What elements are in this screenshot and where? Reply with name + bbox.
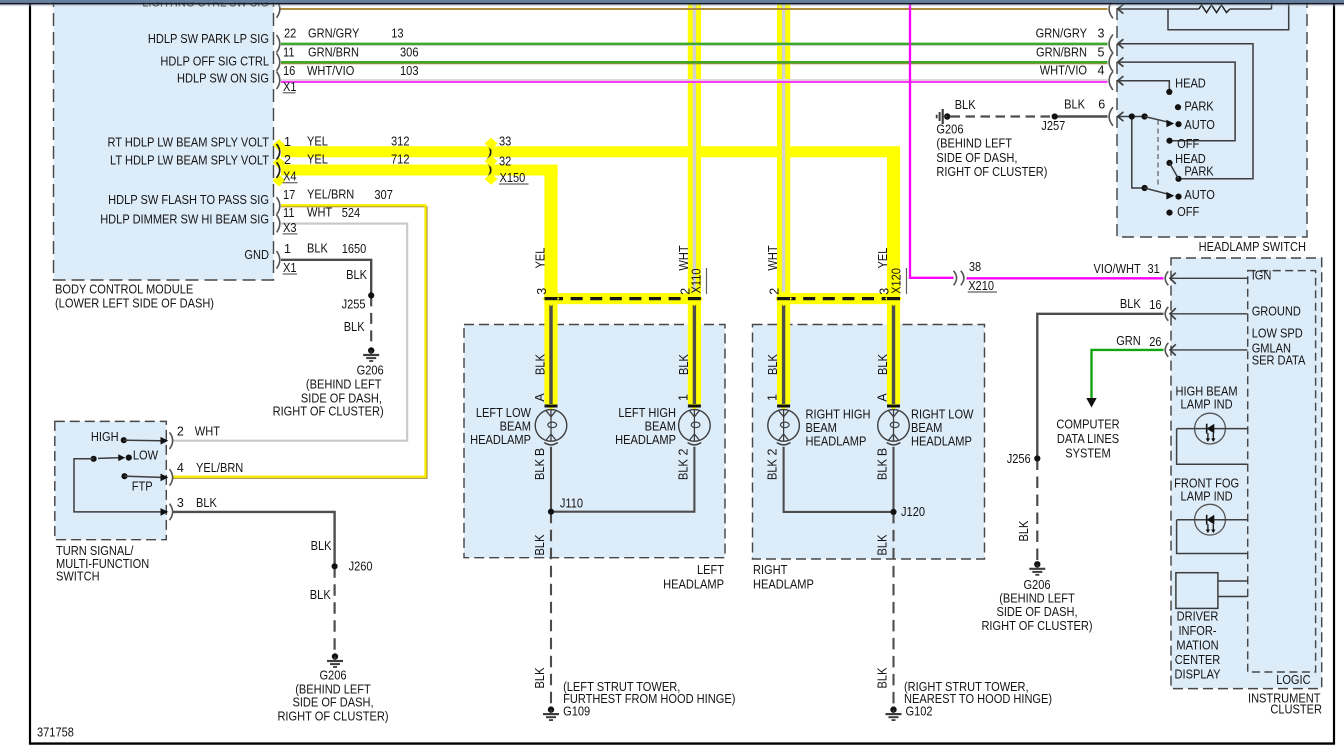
wire BLK 6 J257 to headlamp switch [1055,115,1108,117]
headlamp switch wire pin6 to switch poles [1118,117,1145,189]
svg-text:LOW: LOW [133,449,158,463]
page border left [29,3,31,745]
svg-text:13: 13 [391,26,403,40]
svg-text:OFF: OFF [1177,137,1199,151]
svg-text:26: 26 [1149,335,1161,349]
headlamp switch pin arcs [1109,0,1113,126]
svg-text:(BEHIND LEFT: (BEHIND LEFT [936,137,1012,151]
wire VIO/WHT vertical from top of page [909,4,911,279]
headlamp switch position labels [1175,77,1215,219]
svg-text:17: 17 [283,188,295,202]
headlamp switch side wire labels [1036,27,1106,112]
svg-text:YEL: YEL [307,153,328,167]
wire VIO/WHT elbow to connector X210 [909,277,954,279]
svg-text:524: 524 [342,206,361,220]
ground G206 below J256 [1029,561,1045,575]
dashed BLK J120 to ground G102 [892,512,894,706]
svg-text:BEAM: BEAM [645,420,676,434]
svg-text:DISPLAY: DISPLAY [1175,668,1221,682]
svg-text:4: 4 [177,461,184,475]
dashed BLK J255 to ground G206 [370,295,372,347]
J260 and G206 labels [277,539,388,724]
computer data lines labels [1056,418,1119,461]
ground G109 labels [563,680,735,718]
BCM signal labels [100,0,269,262]
svg-text:2: 2 [768,288,782,295]
svg-text:GND: GND [244,248,269,262]
svg-text:2: 2 [766,448,780,455]
svg-text:HIGH: HIGH [91,430,119,444]
turn signal labels [56,425,243,584]
svg-text:BLK: BLK [533,458,547,479]
highlighted dashed BLK jumper row left headlamp [546,293,700,304]
svg-text:RIGHT HIGH: RIGHT HIGH [806,408,871,422]
svg-text:TURN SIGNAL/: TURN SIGNAL/ [56,544,134,558]
front fog indicator loop wire [1177,520,1248,554]
svg-text:A: A [533,393,547,402]
instrument cluster internal labels [1174,269,1322,717]
svg-text:YEL: YEL [876,248,890,269]
X150 labels [499,135,529,185]
bulb pigtail left low to J110 [550,447,552,512]
headlamp switch name [1199,240,1306,254]
wire BLK 16 instrument cluster to J256 [1037,314,1163,459]
svg-text:VIO/WHT: VIO/WHT [1094,262,1142,276]
svg-text:B: B [876,448,890,456]
svg-text:BLK: BLK [677,353,691,374]
svg-text:AUTO: AUTO [1184,118,1215,132]
driver information center display symbol [1176,573,1248,609]
svg-text:BLK: BLK [346,268,367,282]
svg-text:GRN/GRY: GRN/GRY [308,26,360,40]
svg-text:SIDE OF DASH,: SIDE OF DASH, [996,605,1077,619]
LED high beam lamp indicator [1177,413,1248,444]
svg-text:RIGHT OF CLUSTER): RIGHT OF CLUSTER) [273,405,384,419]
svg-text:RIGHT OF CLUSTER): RIGHT OF CLUSTER) [981,619,1092,633]
svg-text:G206: G206 [936,123,963,137]
svg-text:HDLP SW FLASH TO PASS SIG: HDLP SW FLASH TO PASS SIG [108,193,269,207]
svg-text:J256: J256 [1007,452,1031,466]
bulb pigtail left high down and to J110 [551,447,694,512]
svg-text:LOW SPD: LOW SPD [1252,327,1303,341]
svg-text:HDLP SW PARK LP SIG: HDLP SW PARK LP SIG [148,32,269,46]
svg-text:BLK: BLK [876,667,890,688]
svg-text:HEADLAMP SWITCH: HEADLAMP SWITCH [1199,240,1306,254]
svg-text:GRN/BRN: GRN/BRN [308,46,359,60]
svg-text:G109: G109 [563,704,590,718]
svg-text:BLK: BLK [311,539,332,553]
bulb right high beam headlamp [768,410,800,445]
turn signal internal switch [74,437,168,516]
dashed BLK J110 to ground G109 [550,512,552,706]
wire WHT 524 BCM to turn signal switch [173,224,407,441]
svg-text:BEAM: BEAM [500,420,531,434]
svg-text:FRONT FOG: FRONT FOG [1174,477,1239,491]
splice J256 [1034,455,1040,461]
svg-text:(BEHIND LEFT: (BEHIND LEFT [295,683,371,697]
svg-text:G206: G206 [1023,578,1050,592]
svg-text:16: 16 [1149,298,1161,312]
highlighted dashed BLK jumper row right headlamp [778,293,899,304]
wire YEL 312 row (RT HDLP LW BEAM SPLY VOLT) horizontal [281,146,900,157]
wire YEL/BRN 307 BCM to turn signal switch [173,205,427,478]
BCM module name [55,283,214,311]
svg-text:BLK: BLK [1120,297,1141,311]
svg-text:2: 2 [177,425,184,439]
svg-text:SWITCH: SWITCH [56,570,100,584]
svg-text:FTP: FTP [132,479,153,493]
svg-text:HEADLAMP: HEADLAMP [806,435,867,449]
svg-text:HEAD: HEAD [1175,77,1206,91]
svg-text:WHT: WHT [677,245,691,271]
svg-text:CENTER: CENTER [1175,653,1221,667]
svg-text:BLK: BLK [876,534,890,555]
svg-text:BODY CONTROL MODULE: BODY CONTROL MODULE [55,283,193,297]
bulb left low beam headlamp [535,410,567,445]
svg-text:A: A [876,393,890,402]
svg-text:DATA LINES: DATA LINES [1057,432,1119,446]
svg-text:(BEHIND LEFT: (BEHIND LEFT [999,592,1075,606]
BCM pin numbers and wire ids [283,26,419,275]
wire WHT/VIO 103 BCM to headlamp switch [281,80,1108,82]
page border bottom [29,742,1335,744]
headlamp switch wire pin3 to PARK2 [1118,44,1253,179]
svg-text:103: 103 [400,64,419,78]
svg-text:BLK: BLK [344,320,365,334]
svg-text:X120: X120 [890,268,904,294]
svg-text:RIGHT: RIGHT [753,563,788,577]
svg-text:BLK: BLK [955,98,976,112]
splice and headlamp box labels [560,497,925,592]
svg-text:AUTO: AUTO [1184,188,1215,202]
svg-text:GRN/BRN: GRN/BRN [1036,45,1087,59]
bulb pigtail right high down and to J120 [784,447,894,512]
J256 and G206 labels [981,452,1092,633]
svg-text:J120: J120 [901,505,925,519]
page border right [1333,3,1335,745]
svg-text:BLK: BLK [533,534,547,555]
rotated labels below bulbs [533,448,890,689]
svg-text:3: 3 [535,288,549,295]
svg-text:1650: 1650 [342,242,367,256]
svg-text:WHT: WHT [766,245,780,271]
svg-text:CLUSTER: CLUSTER [1270,703,1322,717]
wire BLK G206 to J257 dashed [951,115,1055,117]
svg-text:32: 32 [499,154,511,168]
svg-text:2: 2 [284,153,291,167]
svg-text:G102: G102 [906,705,933,719]
svg-text:WHT/VIO: WHT/VIO [307,64,355,78]
headlamp switch mechanical link dashed [1157,120,1159,188]
svg-text:WHT: WHT [307,205,333,219]
ground G102 labels [904,680,1052,719]
svg-text:BLK: BLK [1064,98,1085,112]
wire LIGHTING CTRL SW SIG (brown) BCM to headlamp switch [280,8,1108,10]
svg-text:INFOR-: INFOR- [1178,624,1216,638]
headlamp switch internal: resistor circuit [1118,4,1289,30]
svg-text:WHT/VIO: WHT/VIO [1040,63,1088,77]
svg-text:LEFT HIGH: LEFT HIGH [618,406,676,420]
wire BLK turn signal pin 3 to J260 [173,512,335,566]
high beam indicator loop wire [1177,429,1248,465]
svg-text:BLK: BLK [876,458,890,479]
highlighted BLK wire drop into bulb [885,291,902,410]
svg-text:BLK: BLK [876,353,890,374]
svg-text:4: 4 [1098,63,1105,77]
highlighted WHT wire from top to left high beam headlamp [688,4,701,303]
svg-text:X210: X210 [968,279,994,293]
highlighted BLK wire drop into bulb [775,291,792,410]
splice J260 [332,563,338,569]
svg-text:LT HDLP LW BEAM SPLY VOLT: LT HDLP LW BEAM SPLY VOLT [110,154,269,168]
splice J257 [1052,113,1058,119]
svg-text:YEL: YEL [307,135,328,149]
splice J255 [368,292,374,298]
svg-text:G206: G206 [319,669,346,683]
svg-text:22: 22 [284,26,296,40]
turn signal / multi-function switch box [55,421,167,539]
headlamp switch box [1117,0,1307,237]
left headlamp box [464,325,725,558]
svg-text:312: 312 [391,135,410,149]
ground G206 left of J257 [937,109,951,124]
svg-text:6: 6 [1098,98,1105,112]
svg-text:GRN: GRN [1116,334,1141,348]
svg-text:BLK: BLK [310,588,331,602]
svg-text:LEFT LOW: LEFT LOW [476,406,531,420]
svg-text:J255: J255 [342,298,366,312]
svg-text:LAMP IND: LAMP IND [1181,490,1233,504]
svg-text:YEL: YEL [534,248,548,269]
svg-text:YEL/BRN: YEL/BRN [196,461,243,475]
svg-text:BLK: BLK [1017,520,1031,541]
bulb right low beam headlamp [878,410,910,445]
svg-text:HEADLAMP: HEADLAMP [663,578,724,592]
bulb pigtail right low to J120 [892,447,894,512]
body control module box [54,0,274,280]
wire GRN/BRN 306 BCM to headlamp switch [281,62,1108,64]
svg-text:306: 306 [400,46,419,60]
svg-text:HEADLAMP: HEADLAMP [911,435,972,449]
svg-text:3: 3 [177,496,184,510]
svg-text:SER DATA: SER DATA [1252,354,1306,368]
svg-text:BEAM: BEAM [911,421,942,435]
svg-text:HDLP SW ON SIG: HDLP SW ON SIG [177,72,269,86]
svg-text:GROUND: GROUND [1252,304,1301,318]
svg-text:SIDE OF DASH,: SIDE OF DASH, [936,151,1017,165]
connector X150 break symbols [485,138,498,185]
svg-text:33: 33 [499,135,511,149]
headlamp switch wire pin4 to HEAD1 [1118,81,1170,89]
svg-text:COMPUTER: COMPUTER [1056,418,1119,432]
svg-text:BLK: BLK [676,458,690,479]
svg-text:BLK: BLK [534,353,548,374]
svg-text:X1: X1 [283,80,297,94]
svg-text:J260: J260 [349,560,373,574]
svg-text:X3: X3 [283,221,297,235]
svg-text:LOGIC: LOGIC [1276,673,1310,687]
highlighted WHT wire from top to right high beam headlamp [777,4,790,303]
svg-text:X1: X1 [283,261,297,275]
svg-text:X4: X4 [283,170,297,184]
bulb name labels [470,406,974,449]
wire GRN/GRY 13 BCM to headlamp switch [281,44,1108,46]
instrument cluster outer box [1171,258,1322,689]
svg-text:BLK: BLK [196,496,217,510]
right headlamp box [753,325,985,560]
headlamp switch pin chevron arrows [1118,4,1124,121]
dashed BLK J256 to ground G206 [1036,459,1038,561]
G206 / J257 labels [936,98,1065,179]
svg-text:BLK: BLK [766,458,780,479]
svg-text:BEAM: BEAM [806,421,837,435]
svg-text:PARK: PARK [1184,164,1214,178]
svg-text:G206: G206 [357,364,384,378]
svg-text:HIGH BEAM: HIGH BEAM [1176,384,1238,398]
svg-text:PARK: PARK [1184,100,1214,114]
svg-text:712: 712 [391,153,410,167]
highlighted BLK wire drop into bulb [686,291,703,410]
J255 and G206 labels [273,268,384,419]
rotated labels on headlamp feed wires [534,245,907,295]
svg-text:2: 2 [676,448,690,455]
svg-text:X150: X150 [500,171,526,185]
LED front fog lamp indicator [1177,504,1248,535]
wire YEL 712 row (LT HDLP LW BEAM SPLY VOLT) horizontal [281,165,558,176]
svg-text:1: 1 [284,135,291,149]
top toolbar strip [0,0,1344,6]
svg-text:J110: J110 [560,497,583,511]
wire YEL 312 vertical drop to right low beam headlamp [887,152,900,303]
svg-text:IGN: IGN [1252,269,1272,283]
dashed BLK J260 to ground G206 [334,566,336,653]
svg-text:371758: 371758 [37,726,74,740]
svg-text:BLK: BLK [307,241,328,255]
svg-text:YEL/BRN: YEL/BRN [307,187,354,201]
diagram number [37,726,74,740]
svg-text:J257: J257 [1041,119,1065,133]
X210 labels [968,260,997,293]
highlighted BLK wire drop into bulb [543,291,560,410]
svg-text:RIGHT OF CLUSTER): RIGHT OF CLUSTER) [277,710,388,724]
svg-text:1: 1 [676,394,690,401]
svg-text:HDLP OFF SIG CTRL: HDLP OFF SIG CTRL [160,55,269,69]
svg-text:307: 307 [374,188,393,202]
BCM connector pin arcs [277,0,280,268]
instrument cluster pin arrows [1170,273,1248,356]
svg-text:MATION: MATION [1176,639,1218,653]
svg-text:WHT: WHT [195,425,221,439]
svg-text:BLK: BLK [533,667,547,688]
ground G102 [886,706,902,720]
svg-text:11: 11 [283,206,295,220]
svg-text:LEFT: LEFT [697,563,724,577]
svg-text:SIDE OF DASH,: SIDE OF DASH, [292,696,373,710]
svg-text:SIDE OF DASH,: SIDE OF DASH, [301,392,382,406]
svg-text:(LOWER LEFT SIDE OF DASH): (LOWER LEFT SIDE OF DASH) [55,297,214,311]
svg-text:1: 1 [284,242,291,256]
rotated BLK labels above bulbs [533,353,890,401]
svg-text:OFF: OFF [1177,205,1199,219]
ground G109 [543,706,559,720]
svg-text:SYSTEM: SYSTEM [1065,447,1111,461]
cluster wire labels [1094,262,1162,349]
svg-text:(BEHIND LEFT: (BEHIND LEFT [306,378,382,392]
instrument cluster logic inner box [1248,271,1316,672]
bulb left high beam headlamp [679,410,711,445]
svg-text:HEADLAMP: HEADLAMP [615,433,676,447]
svg-text:38: 38 [969,260,981,274]
svg-text:BLK: BLK [766,353,780,374]
connector X210 break symbols [954,271,964,285]
ground G206 below J255 [363,347,379,361]
svg-text:LAMP IND: LAMP IND [1181,397,1233,411]
svg-text:RIGHT LOW: RIGHT LOW [911,408,974,422]
svg-text:16: 16 [283,64,295,78]
turn signal pin arcs [170,432,173,520]
wire YEL 712 vertical drop to left low beam headlamp [544,170,557,303]
splice J120 [890,509,896,515]
svg-text:B: B [533,448,547,456]
svg-text:RIGHT OF CLUSTER): RIGHT OF CLUSTER) [936,165,1047,179]
svg-text:11: 11 [283,46,295,60]
wire VIO/WHT 31 from X210 to instrument cluster IGN [967,277,1164,279]
wire GRN 26 instrument cluster to computer data lines arrow [1086,350,1163,408]
svg-text:3: 3 [1098,27,1105,41]
svg-text:5: 5 [1098,45,1105,59]
ground G206 below J260 [327,653,343,667]
svg-text:GRN/GRY: GRN/GRY [1036,27,1088,41]
headlamp switch rotary contacts 1 [1129,89,1182,144]
headlamp switch rotary contacts 2 [1142,160,1182,216]
svg-text:DRIVER: DRIVER [1177,610,1219,624]
svg-text:1: 1 [766,394,780,401]
svg-text:X110: X110 [690,268,704,293]
instrument cluster pin arcs [1165,271,1168,357]
svg-text:HEADLAMP: HEADLAMP [470,433,531,447]
wire BLK 1650 BCM to J255 [281,260,371,296]
headlamp switch wire pin5 to OFF1 [1118,62,1235,141]
svg-text:31: 31 [1148,262,1160,276]
svg-text:HEADLAMP: HEADLAMP [753,578,814,592]
svg-text:HDLP DIMMER SW HI BEAM SIG: HDLP DIMMER SW HI BEAM SIG [100,213,269,227]
svg-text:RT HDLP LW BEAM SPLY VOLT: RT HDLP LW BEAM SPLY VOLT [108,135,270,149]
splice J110 [548,509,554,515]
BCM pin arcs for YEL rows with highlight [273,139,286,186]
